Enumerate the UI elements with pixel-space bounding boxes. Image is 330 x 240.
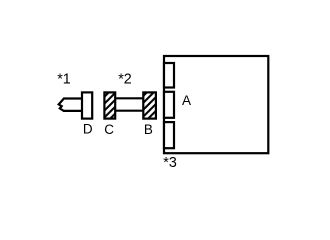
hatched block C	[104, 92, 115, 118]
svg-text:A: A	[182, 93, 191, 108]
svg-text:C: C	[104, 122, 114, 137]
svg-text:*1: *1	[57, 72, 71, 88]
port slot 3	[164, 122, 174, 148]
svg-text:*2: *2	[118, 72, 132, 88]
port slot 2 (port A)	[164, 92, 174, 118]
svg-text:B: B	[144, 122, 153, 137]
svg-text:D: D	[83, 122, 93, 137]
device box (part *3)	[164, 56, 268, 153]
hatched block B	[143, 92, 156, 118]
port slot 1	[164, 63, 174, 88]
bar between C and B	[110, 98, 148, 110]
connector body D	[82, 92, 92, 118]
svg-text:*3: *3	[163, 155, 177, 171]
plug shaft with notched tip (part *1)	[59, 99, 82, 111]
